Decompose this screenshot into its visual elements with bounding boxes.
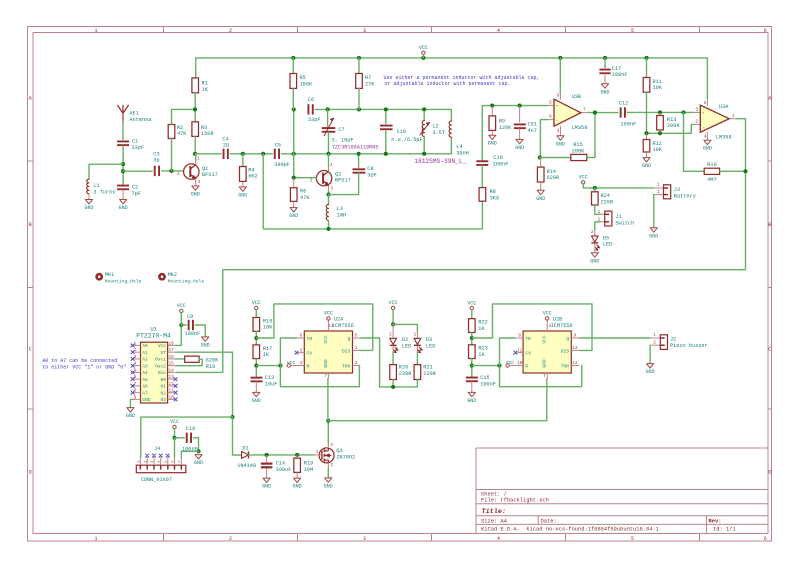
ground U3A V- xyxy=(704,140,711,144)
svg-text:GND: GND xyxy=(238,192,247,198)
resistor R5 xyxy=(292,58,294,74)
svg-text:ICM7556: ICM7556 xyxy=(551,323,573,329)
resistor R17 xyxy=(253,345,260,359)
svg-text:MK1: MK1 xyxy=(105,272,114,278)
svg-text:2: 2 xyxy=(310,178,313,183)
capacitor C3 xyxy=(154,166,156,176)
wire C6 branch vertical xyxy=(293,109,295,177)
svg-text:Q1: Q1 xyxy=(202,166,208,172)
svg-text:18: 18 xyxy=(169,341,175,346)
svg-text:VCC: VCC xyxy=(543,311,552,317)
svg-text:GND: GND xyxy=(646,369,655,375)
svg-text:10K: 10K xyxy=(653,85,663,91)
svg-text:LM358: LM358 xyxy=(716,134,732,140)
svg-text:MK2: MK2 xyxy=(168,272,177,278)
node C1-C3-C2 xyxy=(121,169,125,173)
svg-text:C: C xyxy=(29,346,32,352)
svg-text:R9: R9 xyxy=(499,119,505,125)
svg-text:KiCad E.D.A. kicad no-vcs-fou: KiCad E.D.A. kicad no-vcs-found-1f6854f5… xyxy=(481,526,659,532)
ground C13 xyxy=(255,381,257,392)
wire C3 to Q1 base xyxy=(162,170,184,172)
resistor R23 xyxy=(469,345,476,359)
ground R14 xyxy=(540,182,542,190)
svg-text:R11: R11 xyxy=(653,79,662,85)
svg-text:01: 01 xyxy=(161,384,167,390)
wire VT to J4 pin1 xyxy=(141,417,233,457)
capacitor C8 xyxy=(358,154,360,168)
capacitor C4 xyxy=(223,149,225,159)
wire C6 rail xyxy=(315,109,451,121)
power flag VCC U2B xyxy=(546,317,549,320)
ground C51 xyxy=(519,128,521,139)
svg-text:GND: GND xyxy=(600,89,609,95)
svg-text:R17: R17 xyxy=(263,346,272,352)
node C5 right xyxy=(292,152,296,156)
U1 no-connect marks right xyxy=(174,378,177,381)
svg-text:R1: R1 xyxy=(202,81,208,87)
capacitor C15 xyxy=(466,377,478,379)
svg-text:11: 11 xyxy=(169,389,175,394)
svg-text:R13: R13 xyxy=(667,117,676,123)
svg-text:16: 16 xyxy=(169,355,175,360)
ground J2 xyxy=(647,364,654,368)
svg-text:03: 03 xyxy=(161,397,167,403)
svg-text:4: 4 xyxy=(497,536,500,542)
IC U1 PT2270-M4 xyxy=(141,342,168,403)
ground R9 xyxy=(491,130,493,135)
title block xyxy=(476,448,768,534)
svg-text:GND: GND xyxy=(590,258,599,264)
transistor Q3 2N7002 xyxy=(319,448,334,463)
svg-text:220R: 220R xyxy=(399,371,412,377)
svg-text:200K: 200K xyxy=(667,123,680,129)
svg-text:2: 2 xyxy=(657,190,660,195)
wire to D3 xyxy=(393,324,417,332)
svg-text:TZC3R100A110R00: TZC3R100A110R00 xyxy=(332,144,379,150)
svg-text:GND: GND xyxy=(642,163,651,169)
svg-text:DIS: DIS xyxy=(561,348,570,354)
svg-text:17: 17 xyxy=(169,348,175,353)
node C5 left / bottom rail xyxy=(261,152,265,156)
svg-text:VCC: VCC xyxy=(252,300,261,306)
svg-text:A0: A0 xyxy=(142,343,148,349)
svg-text:7: 7 xyxy=(543,374,546,379)
svg-text:2: 2 xyxy=(389,332,392,337)
wire R17 node to U2A TR net xyxy=(256,365,280,367)
node C16 right ground xyxy=(196,449,200,453)
svg-text:GND: GND xyxy=(191,191,200,197)
svg-text:A: A xyxy=(29,95,32,101)
svg-text:VCC: VCC xyxy=(177,303,186,309)
svg-text:CV: CV xyxy=(525,351,531,357)
svg-text:Q2: Q2 xyxy=(335,171,341,177)
svg-text:L1: L1 xyxy=(93,183,99,189)
svg-text:10K: 10K xyxy=(263,325,273,331)
wire VT to D1 xyxy=(233,417,242,455)
svg-text:33pF: 33pF xyxy=(132,145,145,151)
node R13 top xyxy=(658,110,662,114)
svg-text:15: 15 xyxy=(169,362,175,367)
resistor R22 xyxy=(469,319,476,333)
svg-text:1: 1 xyxy=(197,157,200,162)
svg-text:PT2270-M4: PT2270-M4 xyxy=(136,333,171,340)
svg-text:100nF: 100nF xyxy=(620,121,636,127)
wire R3 to collector node xyxy=(194,136,196,153)
svg-text:R8: R8 xyxy=(490,189,496,195)
svg-text:to either VCC "1" or GND "0": to either VCC "1" or GND "0" xyxy=(42,365,126,371)
svg-text:9: 9 xyxy=(134,395,137,400)
svg-text:Title:: Title: xyxy=(482,508,506,516)
svg-text:U2B: U2B xyxy=(553,316,562,322)
resistor R3 xyxy=(192,122,199,137)
svg-text:2N7002: 2N7002 xyxy=(336,454,355,460)
svg-text:8: 8 xyxy=(704,101,707,106)
svg-text:10K: 10K xyxy=(653,147,663,153)
svg-text:-: - xyxy=(556,119,559,124)
ground R12 xyxy=(646,152,648,158)
LED D5 xyxy=(594,230,596,236)
svg-text:Mounting_Hole: Mounting_Hole xyxy=(168,278,205,284)
svg-text:1mH: 1mH xyxy=(337,213,346,219)
svg-text:TR: TR xyxy=(525,336,531,342)
svg-text:C7: C7 xyxy=(338,127,344,133)
wire C1 node to C3 xyxy=(123,170,152,172)
node U3B out xyxy=(593,111,597,115)
svg-text:2: 2 xyxy=(591,230,594,235)
svg-text:A1: A1 xyxy=(142,350,148,356)
svg-text:n.u./6.5pF: n.u./6.5pF xyxy=(391,137,423,143)
svg-text:C16: C16 xyxy=(186,426,195,432)
svg-text:U3B: U3B xyxy=(572,94,581,100)
svg-text:TR: TR xyxy=(307,336,313,342)
resistor R15 xyxy=(540,157,571,159)
node R13 bottom xyxy=(658,131,662,135)
svg-text:C13: C13 xyxy=(265,375,274,381)
svg-text:B: B xyxy=(768,222,771,228)
wire U1 Osc1 to R18 xyxy=(176,358,185,360)
node R15-R14 xyxy=(538,155,542,159)
wire Q3 source to ground xyxy=(327,463,329,468)
svg-text:4: 4 xyxy=(557,129,560,134)
wire C10 to pin5 rail xyxy=(482,106,548,162)
svg-text:7: 7 xyxy=(178,461,182,463)
svg-text:2: 2 xyxy=(695,120,698,125)
svg-text:GND: GND xyxy=(467,398,476,404)
svg-text:100nF: 100nF xyxy=(493,162,509,168)
svg-text:1K: 1K xyxy=(478,352,485,358)
IC U2B ICM7556 xyxy=(523,331,571,373)
diode D1 1N4148 xyxy=(242,451,249,458)
svg-text:2p: 2p xyxy=(223,143,229,149)
ground C2 xyxy=(122,189,124,199)
svg-text:6K2: 6K2 xyxy=(248,174,257,180)
svg-text:R24: R24 xyxy=(601,193,610,199)
svg-text:Q: Q xyxy=(566,336,569,342)
svg-text:R23: R23 xyxy=(478,346,487,352)
node R11-R12 xyxy=(644,131,648,135)
power flag VCC C9 xyxy=(180,309,183,312)
ground Q1 emitter xyxy=(195,179,197,186)
svg-text:GND: GND xyxy=(194,460,203,466)
svg-text:U2A: U2A xyxy=(334,316,344,322)
svg-text:GND: GND xyxy=(324,483,333,489)
svg-text:7: 7 xyxy=(324,374,327,379)
node R9 top xyxy=(490,104,494,108)
wire U2A TR-THR loop xyxy=(280,338,359,387)
resistor R19 xyxy=(296,455,298,458)
wire J3 pin2 to ground xyxy=(653,195,655,228)
svg-text:1: 1 xyxy=(94,28,97,34)
svg-text:GND: GND xyxy=(119,205,128,211)
svg-text:VCC: VCC xyxy=(389,300,398,306)
svg-text:GND: GND xyxy=(142,397,150,403)
svg-text:5: 5 xyxy=(631,536,634,542)
node C16 left xyxy=(172,436,176,440)
wire R24 to J1 xyxy=(595,205,601,214)
IC U2A ICM7556 xyxy=(304,331,352,373)
mounting hole MK2 xyxy=(159,274,164,279)
svg-text:1: 1 xyxy=(355,346,358,351)
wire U1 pin9 to ground xyxy=(130,399,132,407)
wire Q2 base xyxy=(294,177,317,179)
wire C1 to C2 node xyxy=(122,145,124,184)
svg-text:2: 2 xyxy=(229,28,232,34)
svg-text:J3: J3 xyxy=(674,187,680,193)
svg-text:4M7: 4M7 xyxy=(707,177,716,183)
svg-text:GND: GND xyxy=(556,141,565,147)
resistor R4 xyxy=(242,154,244,167)
resistor R10 xyxy=(704,168,719,174)
wire divider to pin2 xyxy=(647,124,694,133)
svg-text:C17: C17 xyxy=(612,66,621,72)
svg-text:Osc1: Osc1 xyxy=(155,357,166,363)
node R10 right xyxy=(743,169,747,173)
svg-text:D1: D1 xyxy=(242,445,248,451)
ground C16 xyxy=(195,455,202,459)
connector J1 Switch xyxy=(601,213,605,215)
power flag VCC U2A xyxy=(327,317,330,320)
ground U1 xyxy=(127,408,134,412)
svg-text:1K: 1K xyxy=(263,352,270,358)
svg-text:12: 12 xyxy=(572,361,578,366)
svg-text:Q: Q xyxy=(347,336,350,342)
svg-text:3: 3 xyxy=(695,108,698,113)
resistor R8 xyxy=(479,188,486,202)
wire R1 to R3 xyxy=(194,93,196,122)
node Q3 drain / 556 gnd rail xyxy=(326,419,330,423)
node LED rail xyxy=(391,385,395,389)
wire mid rail xyxy=(195,153,221,155)
svg-text:100uF: 100uF xyxy=(276,467,292,473)
node R2 base xyxy=(169,169,173,173)
svg-text:C51: C51 xyxy=(528,122,537,128)
node C51 top xyxy=(518,104,522,108)
svg-text:150R: 150R xyxy=(201,131,214,137)
svg-text:J2: J2 xyxy=(670,337,676,343)
svg-text:1: 1 xyxy=(330,163,333,168)
resistor R16 xyxy=(253,318,260,332)
svg-text:47K: 47K xyxy=(300,195,310,201)
svg-text:GND: GND xyxy=(536,196,545,202)
svg-text:VCC: VCC xyxy=(579,174,588,180)
svg-text:A0 to A7 can be connected: A0 to A7 can be connected xyxy=(42,358,117,364)
svg-text:220R: 220R xyxy=(601,200,614,206)
svg-text:File: rfbacklight.sch: File: rfbacklight.sch xyxy=(481,498,549,504)
svg-text:A6: A6 xyxy=(142,384,148,390)
node C1-L1 xyxy=(121,162,125,166)
node R22-R23 xyxy=(470,336,474,340)
ground R6 xyxy=(293,201,295,207)
svg-text:R5: R5 xyxy=(300,75,306,81)
svg-text:7pF: 7pF xyxy=(132,191,141,197)
wire C12 to U3A pin3 xyxy=(627,111,693,113)
node R1-R2-R3 xyxy=(193,107,197,111)
svg-text:C8: C8 xyxy=(367,166,373,172)
resistor R14 xyxy=(540,158,542,168)
svg-text:200K: 200K xyxy=(572,148,585,154)
node C18 bottom xyxy=(384,152,388,156)
svg-text:A4: A4 xyxy=(142,370,148,376)
svg-text:220R: 220R xyxy=(423,371,436,377)
svg-text:LM358: LM358 xyxy=(572,125,588,131)
svg-text:GND: GND xyxy=(488,141,497,147)
svg-text:3: 3 xyxy=(330,443,333,448)
node R3-C4-Q1 xyxy=(193,152,197,156)
wire J2 pin2 to ground xyxy=(649,345,651,363)
svg-text:1: 1 xyxy=(653,333,656,338)
wire U3A output loop xyxy=(176,119,745,373)
svg-text:1: 1 xyxy=(657,183,660,188)
power flag VCC LEDs xyxy=(391,306,394,309)
svg-text:LED: LED xyxy=(426,344,435,350)
svg-text:14: 14 xyxy=(169,368,175,373)
svg-text:Antenna: Antenna xyxy=(129,117,151,123)
resistor R6 xyxy=(293,178,295,188)
svg-text:R12: R12 xyxy=(653,141,662,147)
resistor R12 xyxy=(646,133,648,139)
ground U3B V- xyxy=(557,136,564,140)
svg-text:VCC: VCC xyxy=(170,419,179,425)
inductor L1 xyxy=(87,179,89,194)
svg-text:R6: R6 xyxy=(300,189,306,195)
wire J4 pin6 up xyxy=(174,438,176,458)
capacitor C13 xyxy=(251,377,263,379)
resistor R11 xyxy=(646,58,648,78)
svg-text:-: - xyxy=(702,126,705,131)
wire Q3 drain xyxy=(327,421,329,445)
resistor R13 xyxy=(659,112,661,115)
svg-text:C1: C1 xyxy=(132,139,138,145)
svg-text:Din: Din xyxy=(158,370,166,376)
svg-text:3K9: 3K9 xyxy=(490,196,499,202)
svg-text:R18: R18 xyxy=(206,364,215,370)
svg-text:C4: C4 xyxy=(222,136,228,142)
node R19 top xyxy=(295,453,299,457)
wire 556 ground rail xyxy=(328,379,547,421)
node Q2 emitter xyxy=(326,193,330,197)
svg-text:THR: THR xyxy=(561,364,570,370)
svg-text:33pF: 33pF xyxy=(308,117,321,123)
svg-text:820K: 820K xyxy=(206,358,219,364)
svg-text:ICM7556: ICM7556 xyxy=(332,323,354,329)
power flag VCC main xyxy=(422,51,425,54)
transistor Q1 BFS17 xyxy=(184,164,199,179)
svg-text:VCC: VCC xyxy=(542,335,548,344)
svg-text:5: 5 xyxy=(549,101,552,106)
node L3 bottom xyxy=(326,227,330,231)
svg-text:R20: R20 xyxy=(399,365,408,371)
svg-text:4: 4 xyxy=(497,28,500,34)
svg-text:10uF: 10uF xyxy=(265,382,278,388)
wire R22 node to U2B DIS xyxy=(472,304,592,351)
svg-text:R22: R22 xyxy=(478,320,487,326)
resistor R21 xyxy=(416,352,418,365)
svg-text:1K: 1K xyxy=(202,87,209,93)
ground J3 xyxy=(650,228,657,232)
svg-text:3pF: 3pF xyxy=(367,172,376,178)
wire R16 bottom xyxy=(255,331,257,345)
svg-text:1: 1 xyxy=(316,450,319,455)
capacitor C10 xyxy=(476,160,488,162)
connector J4 CONN_01X07 xyxy=(136,465,186,473)
svg-text:8: 8 xyxy=(518,334,521,339)
node R17-C13 xyxy=(254,364,258,368)
node VT junction xyxy=(230,415,234,419)
svg-text:VCC: VCC xyxy=(324,311,333,317)
svg-text:3: 3 xyxy=(151,461,155,463)
ground R19 xyxy=(296,472,298,478)
svg-text:7: 7 xyxy=(583,108,586,113)
svg-text:Mounting_Hole: Mounting_Hole xyxy=(105,278,142,284)
svg-text:3: 3 xyxy=(363,28,366,34)
svg-text:A3: A3 xyxy=(142,363,148,369)
svg-text:C: C xyxy=(768,346,771,352)
svg-text:A: A xyxy=(768,95,771,101)
capacitor C18 xyxy=(385,109,387,123)
svg-text:GND: GND xyxy=(515,145,524,151)
J4 no-connect marks xyxy=(146,454,149,457)
svg-text:BFS17: BFS17 xyxy=(335,178,351,184)
node L2 bottom xyxy=(422,152,426,156)
capacitor C9 xyxy=(188,320,190,330)
svg-text:1: 1 xyxy=(94,536,97,542)
capacitor C5 xyxy=(274,149,276,159)
svg-text:L2: L2 xyxy=(432,124,438,130)
svg-text:10M: 10M xyxy=(304,467,313,473)
variable inductor L2 xyxy=(423,109,425,120)
svg-text:1: 1 xyxy=(138,461,142,463)
svg-text:100nF: 100nF xyxy=(185,331,201,337)
svg-text:R2: R2 xyxy=(177,125,183,131)
svg-text:A7: A7 xyxy=(142,390,148,396)
svg-text:1K: 1K xyxy=(478,326,485,332)
U1 pins xyxy=(133,344,141,346)
svg-text:Date:: Date: xyxy=(541,518,557,524)
svg-text:R3: R3 xyxy=(201,125,207,131)
antenna AE1 xyxy=(118,105,129,121)
resistor R1 xyxy=(192,78,199,93)
svg-text:02: 02 xyxy=(161,390,167,396)
power flag VCC R16 xyxy=(255,306,258,309)
trimmer capacitor C7 xyxy=(327,109,329,126)
svg-text:3: 3 xyxy=(330,187,333,192)
svg-text:LED: LED xyxy=(603,242,612,248)
svg-text:D3: D3 xyxy=(426,337,432,343)
svg-text:Osc2: Osc2 xyxy=(155,363,166,369)
U2B CV no-connect xyxy=(514,351,517,354)
inductor L4 xyxy=(449,121,451,137)
svg-text:GND: GND xyxy=(323,359,329,368)
